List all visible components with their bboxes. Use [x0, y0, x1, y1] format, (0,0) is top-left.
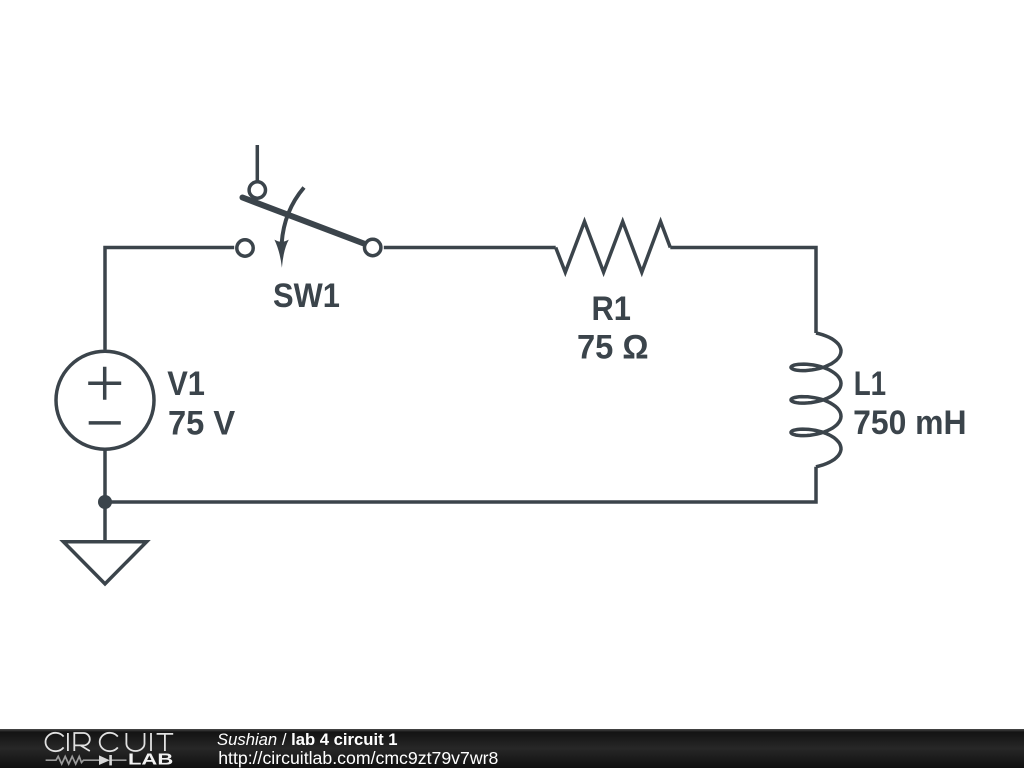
ground — [63, 542, 146, 584]
voltage source V1 circle — [56, 351, 154, 449]
wire resistor R1 to inductor L1 top — [670, 248, 816, 334]
V1 minus sign — [89, 421, 121, 425]
wire node to ground symbol — [103, 502, 107, 542]
logo letter I — [67, 733, 69, 751]
label L1 — [854, 364, 886, 402]
logo diode — [99, 755, 110, 765]
resistor R1 zigzag — [556, 222, 671, 273]
svg-text:SW1: SW1 — [273, 275, 340, 314]
svg-text:http://circuitlab.com/cmc9zt79: http://circuitlab.com/cmc9zt79v7wr8 — [218, 748, 498, 768]
svg-text:750 mH: 750 mH — [853, 404, 966, 442]
svg-text:75 V: 75 V — [168, 405, 236, 443]
footer bar — [0, 729, 1024, 768]
svg-text:V1: V1 — [167, 363, 205, 402]
switch SW1 left terminal circle — [237, 240, 253, 256]
logo letter U — [126, 733, 144, 751]
wire switch right terminal to resistor R1 — [384, 246, 556, 250]
svg-text:Sushian / lab 4 circuit 1: Sushian / lab 4 circuit 1 — [217, 730, 398, 749]
logo letter C — [46, 733, 174, 751]
logo letter C2 — [100, 733, 118, 751]
svg-text:LAB: LAB — [128, 752, 173, 768]
label V1 value 75 V — [168, 405, 236, 443]
logo resistor-diode squiggle — [46, 755, 127, 765]
wire V1 bottom to node — [103, 451, 107, 503]
switch SW1 actuation arrow arc — [282, 188, 304, 244]
switch SW1 arrowhead — [274, 240, 288, 268]
node junction dot — [98, 495, 112, 509]
logo letter R — [74, 733, 90, 751]
logo letter T — [157, 734, 174, 751]
switch SW1 top terminal circle — [249, 182, 265, 198]
svg-text:75 Ω: 75 Ω — [577, 329, 649, 367]
label R1 — [592, 288, 631, 327]
label SW1 — [273, 275, 340, 314]
svg-text:L1: L1 — [854, 364, 886, 402]
switch SW1 right terminal circle — [365, 239, 381, 255]
label R1 value 75 ohm — [577, 329, 649, 367]
V1 plus sign — [88, 367, 121, 400]
label L1 value 750 mH — [853, 404, 966, 442]
wire from V1 top to switch left terminal — [105, 248, 234, 350]
footer URL — [218, 748, 498, 768]
switch SW1 blade — [243, 198, 374, 248]
svg-text:R1: R1 — [592, 288, 631, 327]
wire switch top stub — [256, 145, 260, 181]
inductor L1 coil — [791, 333, 841, 467]
wire inductor L1 bottom to ground node — [105, 467, 816, 502]
footer title Sushian / lab 4 circuit 1 — [217, 730, 398, 749]
label V1 — [167, 363, 205, 402]
logo letter I2 — [150, 733, 152, 751]
